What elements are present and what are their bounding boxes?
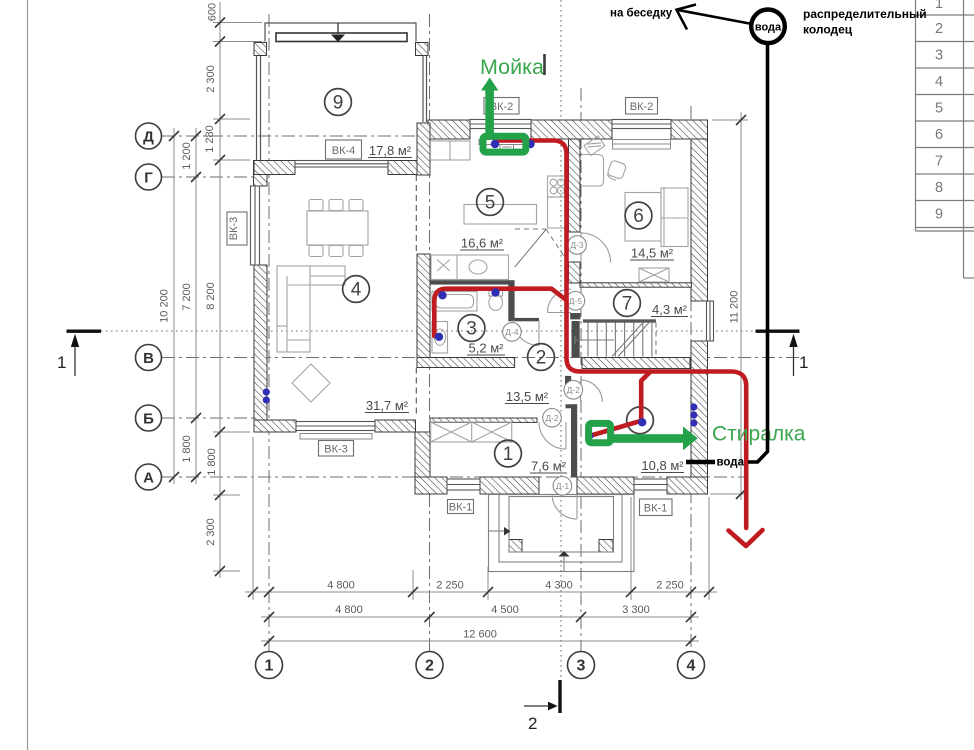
svg-text:4 500: 4 500: [491, 604, 519, 616]
svg-text:600: 600: [207, 3, 219, 21]
svg-text:В: В: [143, 350, 154, 367]
svg-text:2: 2: [536, 348, 547, 369]
svg-text:5: 5: [485, 193, 496, 214]
svg-text:10,8 м²: 10,8 м²: [641, 458, 684, 473]
svg-text:4 300: 4 300: [545, 580, 573, 592]
svg-text:6: 6: [633, 206, 644, 227]
svg-text:2 300: 2 300: [205, 65, 217, 93]
svg-text:ВК-1: ВК-1: [449, 502, 473, 514]
svg-text:ВК-3: ВК-3: [228, 217, 240, 241]
svg-text:Мойка: Мойка: [480, 55, 544, 79]
svg-text:1: 1: [57, 353, 66, 372]
svg-text:Г: Г: [144, 170, 153, 187]
svg-text:2 250: 2 250: [436, 580, 464, 592]
svg-text:1 280: 1 280: [204, 125, 216, 153]
svg-text:7,6 м²: 7,6 м²: [531, 459, 567, 474]
svg-text:2: 2: [425, 658, 434, 675]
svg-text:1: 1: [799, 353, 808, 372]
svg-text:17,8 м²: 17,8 м²: [369, 143, 412, 158]
svg-text:распределительный: распределительный: [803, 7, 927, 21]
svg-text:Д-2: Д-2: [545, 413, 559, 423]
svg-text:13,5 м²: 13,5 м²: [506, 389, 549, 404]
svg-text:колодец: колодец: [803, 23, 853, 37]
svg-text:Д-1: Д-1: [556, 481, 570, 491]
svg-text:16,6 м²: 16,6 м²: [461, 236, 504, 251]
svg-text:2: 2: [528, 714, 537, 733]
svg-text:10 200: 10 200: [159, 289, 171, 323]
svg-text:3 300: 3 300: [622, 604, 650, 616]
svg-text:4: 4: [687, 658, 696, 675]
svg-text:ВК-4: ВК-4: [332, 145, 356, 157]
svg-text:4: 4: [935, 74, 943, 90]
svg-text:Б: Б: [143, 411, 154, 428]
svg-text:Д-2: Д-2: [567, 385, 581, 395]
svg-text:31,7 м²: 31,7 м²: [366, 398, 409, 413]
svg-text:вода: вода: [755, 22, 782, 34]
svg-text:3: 3: [466, 319, 477, 340]
svg-text:А: А: [143, 470, 154, 487]
svg-text:Стиралка: Стиралка: [712, 423, 806, 446]
svg-text:Д: Д: [143, 129, 154, 146]
svg-text:1: 1: [935, 0, 943, 12]
svg-text:1 200: 1 200: [181, 142, 193, 170]
svg-text:ВК-1: ВК-1: [644, 503, 668, 515]
svg-text:9: 9: [333, 93, 344, 114]
svg-text:1: 1: [503, 444, 514, 465]
svg-text:4 800: 4 800: [327, 580, 355, 592]
svg-text:4 800: 4 800: [335, 604, 363, 616]
svg-text:9: 9: [935, 207, 943, 223]
svg-text:8 200: 8 200: [205, 282, 217, 310]
svg-text:11 200: 11 200: [729, 291, 741, 324]
svg-text:вода: вода: [717, 457, 745, 469]
svg-text:8: 8: [935, 180, 943, 196]
svg-text:2 250: 2 250: [656, 580, 684, 592]
svg-text:4,3 м²: 4,3 м²: [652, 302, 688, 317]
svg-text:14,5 м²: 14,5 м²: [631, 246, 674, 261]
svg-text:1 800: 1 800: [181, 435, 193, 463]
svg-text:3: 3: [577, 658, 586, 675]
svg-text:Д-5: Д-5: [569, 296, 583, 306]
svg-text:1: 1: [265, 658, 274, 675]
svg-text:7 200: 7 200: [181, 283, 193, 311]
svg-text:5,2 м²: 5,2 м²: [469, 341, 505, 356]
svg-text:2: 2: [935, 21, 943, 37]
svg-text:3: 3: [935, 48, 943, 64]
svg-text:5: 5: [935, 101, 943, 117]
svg-text:ВК-3: ВК-3: [324, 444, 348, 456]
svg-text:7: 7: [622, 294, 633, 315]
svg-text:Д-4: Д-4: [505, 327, 519, 337]
svg-text:2 300: 2 300: [205, 518, 217, 546]
svg-text:Д-3: Д-3: [570, 240, 584, 250]
svg-text:1 800: 1 800: [206, 448, 218, 476]
svg-text:ВК-2: ВК-2: [630, 101, 654, 113]
svg-text:на беседку: на беседку: [610, 8, 673, 20]
svg-text:4: 4: [351, 280, 362, 301]
svg-text:12 600: 12 600: [463, 629, 497, 641]
svg-text:6: 6: [935, 127, 943, 143]
svg-text:7: 7: [935, 154, 943, 170]
